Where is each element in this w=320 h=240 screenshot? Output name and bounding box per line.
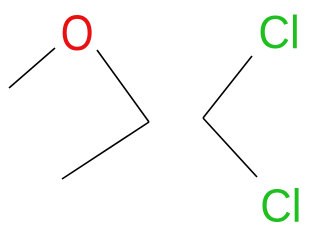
bond CH3-O (left arm)	[9, 48, 55, 88]
atom label O (oxygen, red)	[61, 5, 94, 61]
atom label Cl top (chlorine, green)	[258, 6, 299, 58]
svg-text:O: O	[61, 5, 94, 61]
bond CH2-CH3 (down-left arm)	[62, 122, 149, 179]
svg-text:Cl: Cl	[260, 180, 301, 232]
bond C-Cl (lower)	[203, 118, 257, 177]
bond C-Cl (upper)	[203, 56, 252, 118]
svg-text:Cl: Cl	[258, 6, 299, 58]
atom label Cl bottom (chlorine, green)	[260, 180, 301, 232]
bond O-CH2	[97, 50, 149, 122]
